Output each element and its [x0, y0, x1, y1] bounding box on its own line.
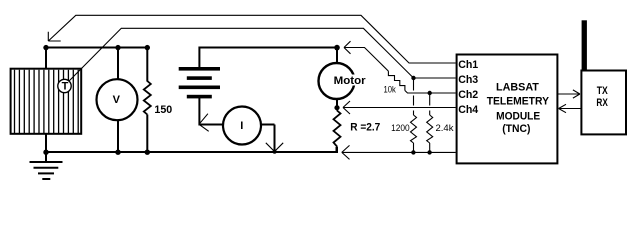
svg-text:R =2.7: R =2.7 [350, 121, 380, 133]
svg-text:150: 150 [154, 104, 172, 116]
svg-text:LABSAT: LABSAT [496, 81, 539, 93]
svg-text:TX: TX [597, 85, 609, 97]
svg-text:10k: 10k [384, 85, 396, 96]
svg-text:MODULE: MODULE [496, 111, 540, 123]
svg-text:Ch4: Ch4 [458, 104, 479, 116]
svg-text:(TNC): (TNC) [502, 123, 531, 135]
svg-text:TELEMETRY: TELEMETRY [487, 96, 550, 108]
svg-text:Ch3: Ch3 [458, 74, 478, 86]
svg-text:RX: RX [596, 97, 608, 109]
svg-text:V: V [113, 94, 121, 106]
svg-text:I: I [240, 120, 243, 132]
svg-text:Motor: Motor [334, 75, 367, 87]
svg-text:T: T [62, 81, 69, 93]
svg-text:2.4k: 2.4k [436, 123, 454, 134]
svg-text:Ch2: Ch2 [458, 89, 478, 101]
svg-text:1200: 1200 [391, 123, 410, 134]
svg-text:Ch1: Ch1 [458, 59, 478, 71]
